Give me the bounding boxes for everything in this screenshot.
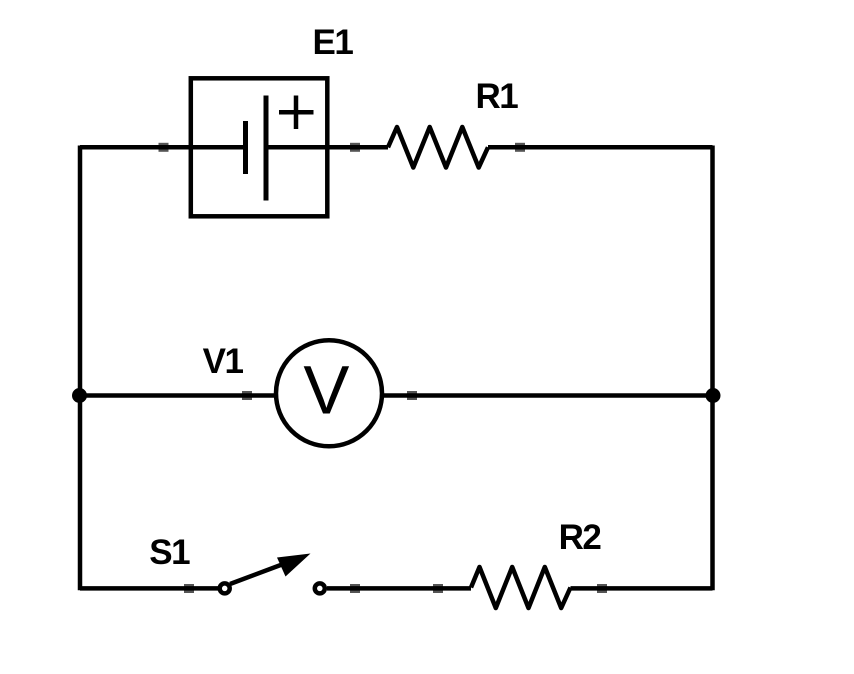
junction dot left (72, 388, 87, 403)
svg-text:S1: S1 (149, 533, 190, 572)
pin tick R2 left (433, 584, 443, 593)
wire switch to R2 (327, 586, 471, 591)
battery plus sign (279, 96, 314, 130)
battery E1 short plate (243, 121, 248, 174)
pin tick S1 left (184, 584, 194, 593)
wire right vertical (710, 146, 715, 591)
wire R1 to top-right corner (488, 145, 713, 150)
junction dot right (706, 388, 721, 403)
battery E1 box (191, 78, 327, 216)
wire top-left horizontal (80, 145, 245, 150)
pin tick E1 left (159, 143, 169, 152)
wire middle left (80, 393, 277, 398)
svg-text:E1: E1 (313, 23, 354, 62)
pin tick S1 right (350, 584, 360, 593)
pin tick R2 right (597, 584, 607, 593)
svg-text:R2: R2 (559, 518, 602, 557)
battery E1 long plate (264, 96, 269, 201)
switch S1 left contact (220, 583, 230, 593)
pin tick V1 right (407, 391, 417, 400)
pin tick E1 right / R1 left (350, 143, 360, 152)
wire R2 to bottom-right corner (571, 586, 713, 591)
resistor R2 (471, 567, 571, 608)
svg-text:V1: V1 (203, 342, 244, 381)
switch S1 arm (230, 562, 290, 585)
wire battery to R1 (266, 145, 388, 150)
switch S1 right contact (315, 583, 325, 593)
wire middle right (381, 393, 713, 398)
switch S1 arrowhead (277, 554, 311, 577)
voltmeter V1 circle (276, 340, 382, 446)
wire left vertical (78, 146, 83, 591)
wire bottom left to switch (80, 586, 218, 591)
svg-text:R1: R1 (476, 77, 519, 116)
pin tick R1 right (515, 143, 525, 152)
resistor R1 (388, 127, 488, 168)
svg-text:V: V (303, 352, 349, 429)
pin tick V1 left (242, 391, 252, 400)
